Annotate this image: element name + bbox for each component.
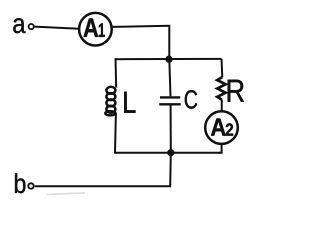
wire junction down to bottom rail (35, 153, 171, 187)
terminal a (29, 24, 34, 29)
ammeter A1 (79, 13, 112, 46)
resistor R zigzag (217, 77, 225, 100)
wire R to A2 (221, 99, 223, 112)
inductor L coil (105, 87, 115, 116)
terminal b label (15, 173, 25, 193)
wire a to A1 (35, 27, 79, 29)
wire C branch top (169, 59, 170, 96)
terminal a label (13, 18, 25, 33)
label C (185, 90, 197, 109)
wire R branch top (221, 59, 224, 77)
wire L branch top (115, 58, 118, 87)
label L (124, 92, 135, 113)
capacitor C (159, 97, 180, 104)
wire A1 to top corner (112, 26, 169, 58)
wire C branch bottom (170, 104, 172, 153)
node top junction (166, 56, 173, 63)
top rail wire (116, 58, 222, 60)
wire A2 to bottom rail (219, 144, 222, 153)
wire L branch bottom (114, 113, 117, 154)
faint scan streak (decorative) (47, 193, 85, 195)
node bottom junction (167, 149, 174, 156)
bottom rail wire (115, 152, 221, 154)
label R (228, 80, 244, 102)
terminal b (28, 183, 33, 188)
ammeter A2 (205, 111, 238, 144)
